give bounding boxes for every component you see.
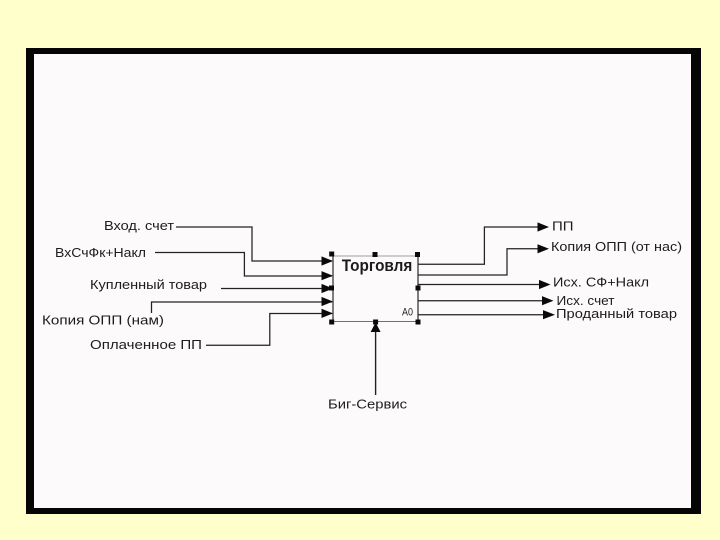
- output arrow wire Исх. счет: [418, 296, 554, 305]
- svg-text:ПП: ПП: [552, 219, 574, 234]
- svg-text:Копия ОПП (от нас): Копия ОПП (от нас): [551, 239, 682, 254]
- selection handle middle-left: [329, 286, 334, 291]
- input arrow wire Оплаченное ПП: [206, 309, 333, 346]
- output arrow wire Исх. СФ+Накл: [418, 280, 551, 289]
- svg-text:ВхСчФк+Накл: ВхСчФк+Накл: [55, 245, 146, 260]
- selection handle bottom-right: [416, 320, 421, 325]
- activity box Торговля (A0): [333, 256, 418, 322]
- input arrow wire Купленный товар: [221, 284, 333, 293]
- output arrow wire Копия ОПП (от нас): [418, 244, 549, 275]
- selection handle top-right: [415, 252, 420, 257]
- svg-text:Оплаченное ПП: Оплаченное ПП: [90, 337, 202, 352]
- svg-text:Вход. счет: Вход. счет: [104, 218, 174, 233]
- input arrow wire ВхСчФк+Накл: [155, 253, 333, 281]
- mechanism arrow wire Биг-Сервис: [371, 323, 381, 396]
- svg-text:Проданный товар: Проданный товар: [556, 306, 677, 321]
- svg-text:Исх. СФ+Накл: Исх. СФ+Накл: [553, 275, 649, 290]
- output arrow wire Проданный товар: [418, 310, 555, 319]
- selection handle bottom-left: [329, 320, 334, 325]
- selection handle middle-right: [416, 286, 421, 291]
- svg-text:Копия ОПП (нам): Копия ОПП (нам): [42, 313, 164, 328]
- selection handle top-left: [329, 252, 334, 257]
- input arrow wire Вход. счет: [176, 227, 333, 266]
- selection handle bottom-middle: [373, 320, 378, 325]
- input arrow wire Копия ОПП (нам): [152, 297, 334, 313]
- svg-text:А0: А0: [402, 307, 413, 319]
- selection handle top-middle: [373, 252, 378, 257]
- output arrow wire ПП: [418, 222, 549, 264]
- svg-text:Купленный товар: Купленный товар: [90, 277, 207, 292]
- svg-text:Биг-Сервис: Биг-Сервис: [328, 396, 408, 411]
- svg-text:Торговля: Торговля: [342, 257, 413, 275]
